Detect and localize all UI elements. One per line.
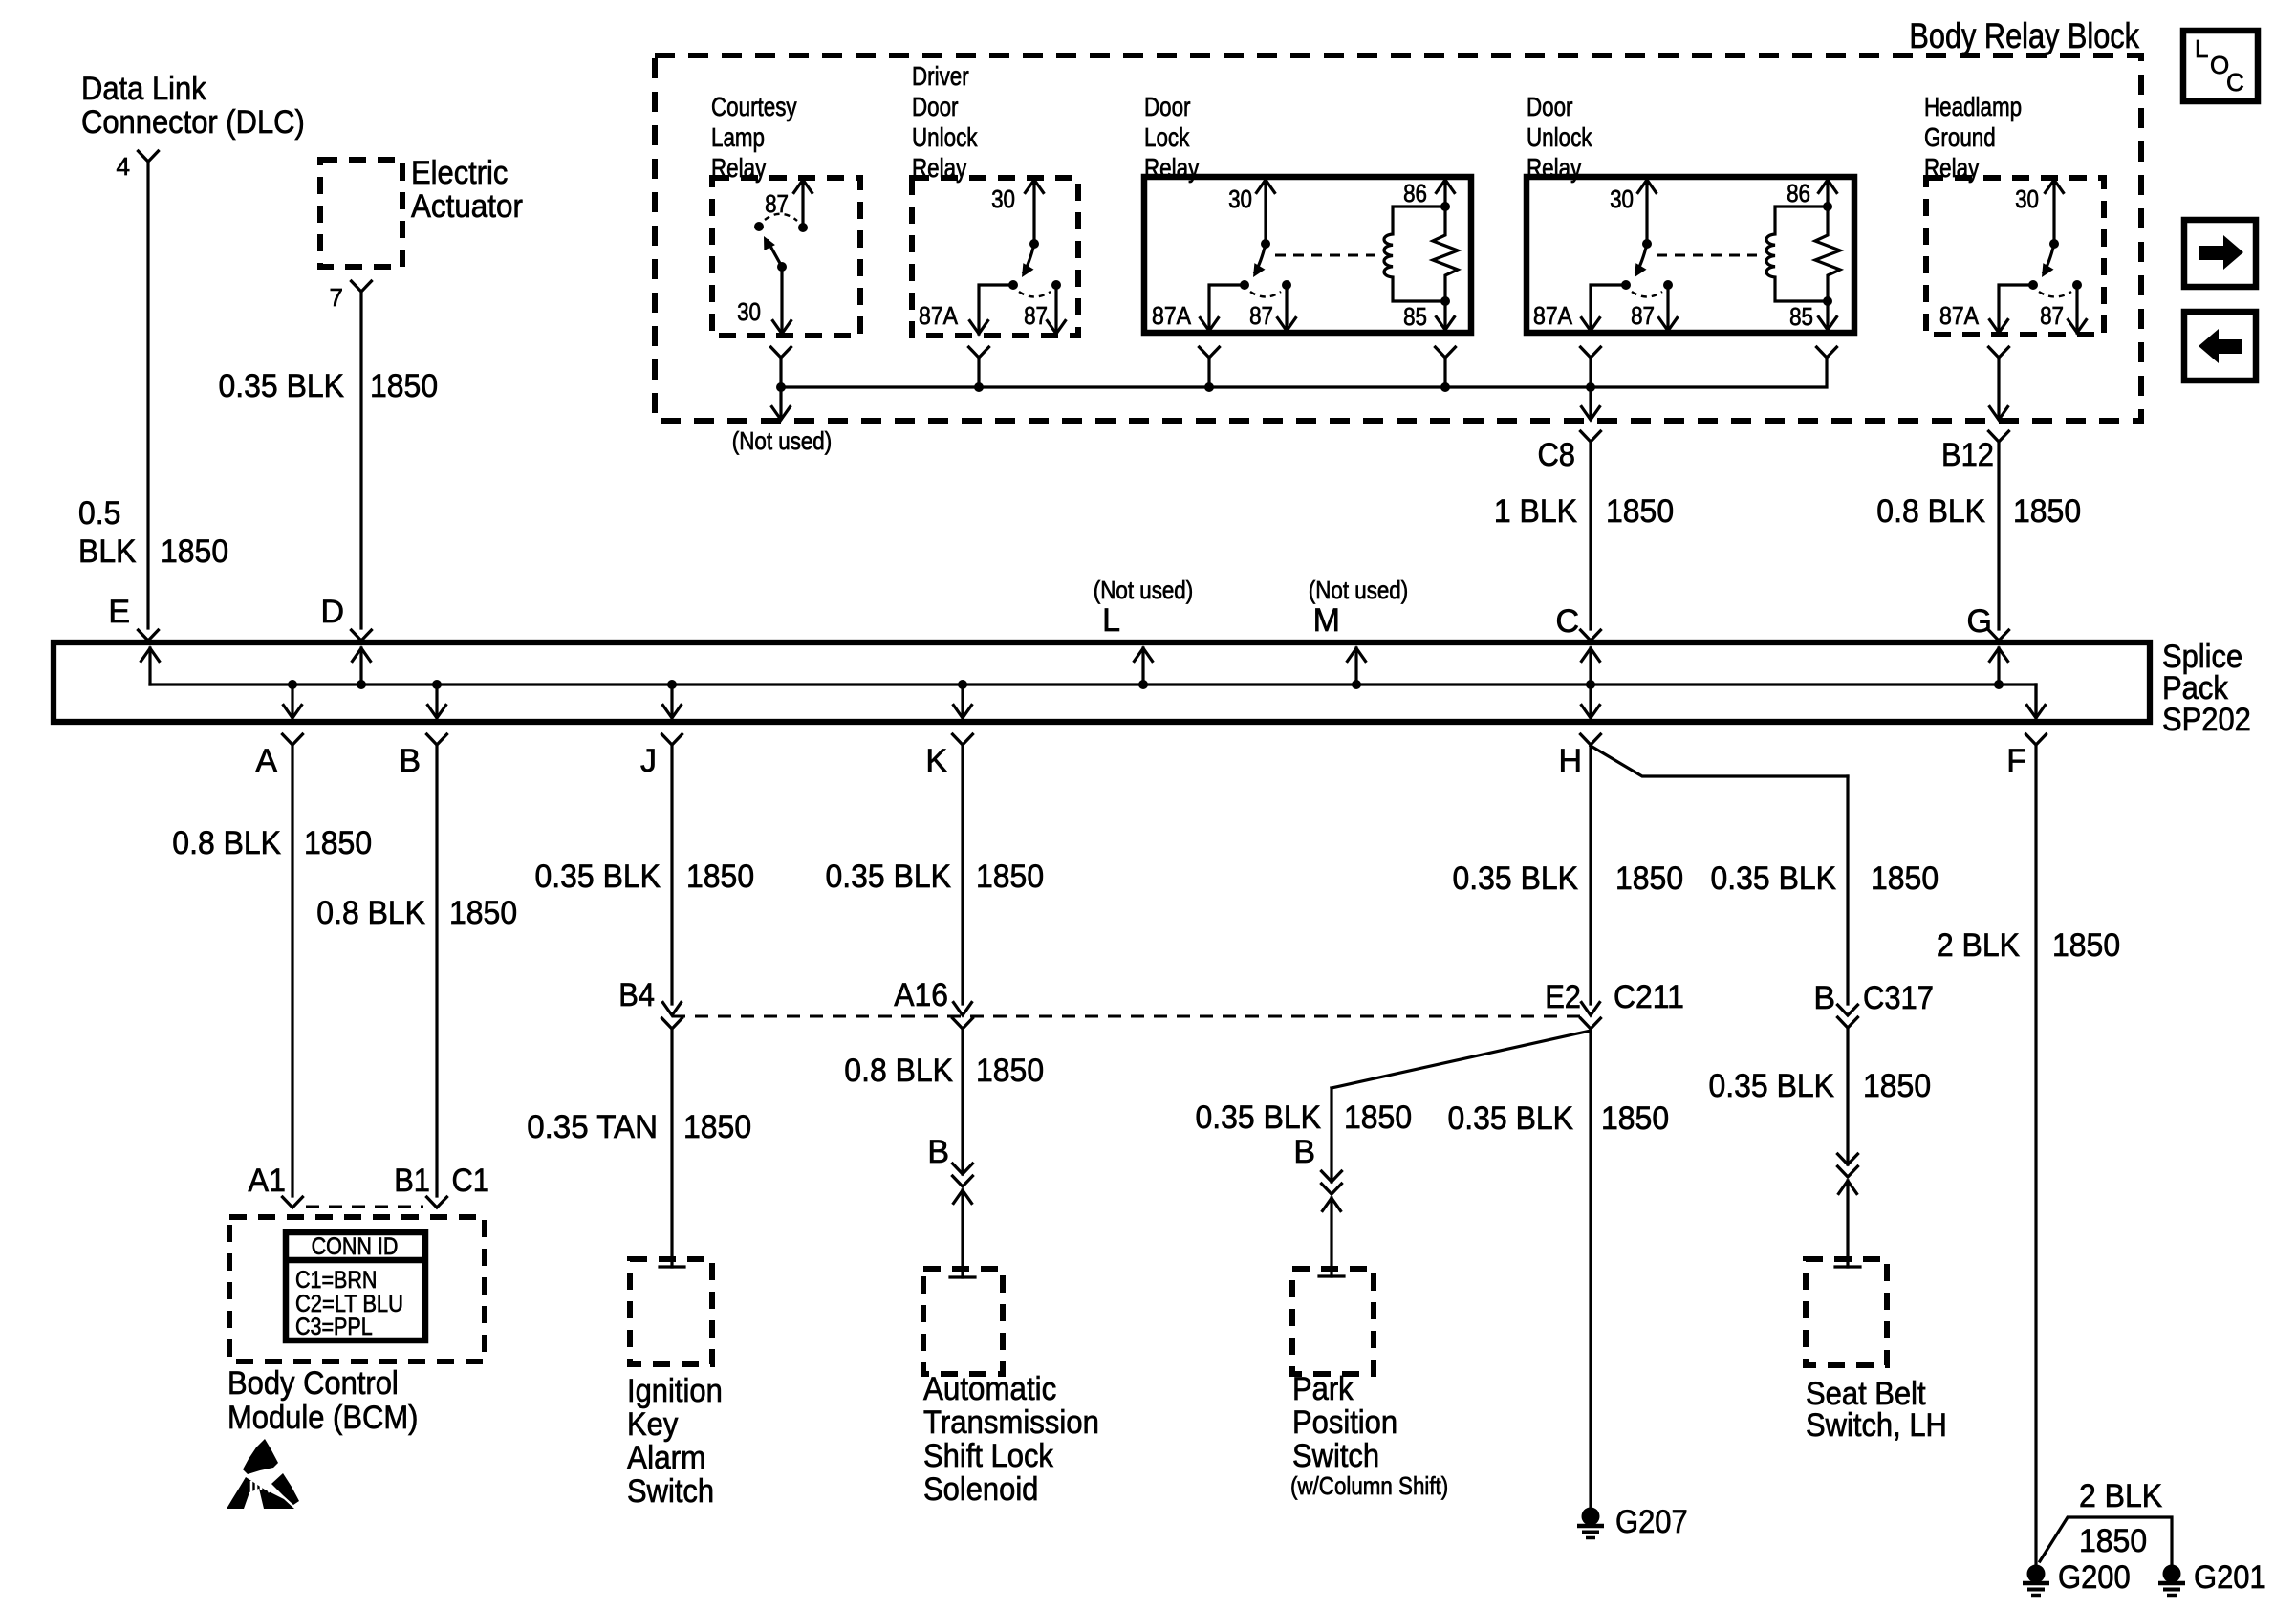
svg-text:86: 86 xyxy=(1403,179,1427,207)
svg-text:Driver: Driver xyxy=(912,61,969,91)
svg-text:(Not used): (Not used) xyxy=(732,426,832,455)
svg-text:0.8 BLK: 0.8 BLK xyxy=(1876,493,1985,530)
svg-text:Shift Lock: Shift Lock xyxy=(923,1438,1054,1474)
svg-text:0.35 BLK: 0.35 BLK xyxy=(1453,860,1579,897)
svg-text:87A: 87A xyxy=(919,301,959,330)
svg-text:Module (BCM): Module (BCM) xyxy=(227,1400,418,1436)
svg-text:0.8 BLK: 0.8 BLK xyxy=(172,825,281,861)
svg-text:1850: 1850 xyxy=(1606,493,1674,530)
svg-text:1 BLK: 1 BLK xyxy=(1494,493,1577,530)
svg-text:2 BLK: 2 BLK xyxy=(1937,927,2020,964)
svg-text:87: 87 xyxy=(1631,301,1655,330)
svg-text:1850: 1850 xyxy=(1344,1099,1412,1136)
svg-text:Door: Door xyxy=(912,92,959,121)
svg-text:7: 7 xyxy=(330,283,343,312)
svg-text:1850: 1850 xyxy=(161,533,228,570)
svg-text:30: 30 xyxy=(2015,185,2039,213)
svg-text:(w/Column Shift): (w/Column Shift) xyxy=(1290,1471,1448,1500)
svg-text:Alarm: Alarm xyxy=(627,1440,706,1476)
svg-text:0.5: 0.5 xyxy=(78,495,120,532)
svg-text:1850: 1850 xyxy=(449,895,517,931)
svg-text:1850: 1850 xyxy=(1601,1100,1669,1137)
svg-text:B: B xyxy=(927,1134,949,1170)
svg-text:Electric: Electric xyxy=(411,155,508,191)
svg-text:87A: 87A xyxy=(1939,301,1980,330)
svg-text:(Not used): (Not used) xyxy=(1309,576,1408,604)
svg-text:(Not used): (Not used) xyxy=(1094,576,1193,604)
svg-text:G: G xyxy=(1967,603,1992,640)
svg-text:A16: A16 xyxy=(894,977,948,1013)
svg-text:K: K xyxy=(925,743,947,779)
svg-text:Door: Door xyxy=(1527,92,1573,121)
svg-text:M: M xyxy=(1313,602,1340,639)
svg-text:1850: 1850 xyxy=(976,859,1044,895)
svg-text:CONN ID: CONN ID xyxy=(312,1233,399,1260)
svg-text:87: 87 xyxy=(1249,301,1273,330)
svg-text:Transmission: Transmission xyxy=(923,1404,1099,1441)
svg-text:30: 30 xyxy=(1228,185,1252,213)
svg-text:0.35 TAN: 0.35 TAN xyxy=(527,1109,658,1145)
svg-text:C: C xyxy=(1555,603,1579,640)
svg-text:30: 30 xyxy=(1610,185,1634,213)
svg-text:Key: Key xyxy=(627,1406,678,1443)
svg-text:C8: C8 xyxy=(1538,437,1576,473)
svg-text:E2: E2 xyxy=(1545,979,1581,1015)
svg-text:1850: 1850 xyxy=(304,825,372,861)
svg-text:1850: 1850 xyxy=(976,1053,1044,1089)
svg-text:Lamp: Lamp xyxy=(711,122,765,152)
svg-text:C3=PPL: C3=PPL xyxy=(295,1314,373,1340)
svg-text:Ground: Ground xyxy=(1924,122,1996,152)
svg-text:B: B xyxy=(1293,1134,1315,1170)
svg-text:B: B xyxy=(399,743,421,779)
svg-text:0.8 BLK: 0.8 BLK xyxy=(316,895,425,931)
svg-text:B: B xyxy=(1813,980,1835,1016)
svg-text:B4: B4 xyxy=(618,977,655,1013)
svg-text:C317: C317 xyxy=(1863,980,1934,1016)
svg-text:B12: B12 xyxy=(1941,437,1994,473)
svg-text:87A: 87A xyxy=(1152,301,1192,330)
svg-text:87A: 87A xyxy=(1533,301,1573,330)
svg-text:B1: B1 xyxy=(394,1163,430,1199)
svg-text:C1=BRN: C1=BRN xyxy=(295,1267,377,1294)
svg-text:Unlock: Unlock xyxy=(1527,122,1592,152)
svg-text:L: L xyxy=(1102,602,1120,639)
svg-text:Body Control: Body Control xyxy=(227,1365,399,1402)
svg-text:L: L xyxy=(2195,34,2208,63)
svg-text:1850: 1850 xyxy=(2079,1523,2147,1559)
svg-text:C1: C1 xyxy=(452,1163,490,1199)
svg-text:E: E xyxy=(108,594,130,630)
svg-text:Unlock: Unlock xyxy=(912,122,978,152)
svg-text:Switch: Switch xyxy=(627,1473,714,1510)
svg-text:Body Relay Block: Body Relay Block xyxy=(1909,16,2139,55)
svg-text:1850: 1850 xyxy=(683,1109,751,1145)
svg-text:Automatic: Automatic xyxy=(923,1371,1056,1407)
svg-text:G207: G207 xyxy=(1615,1504,1688,1540)
svg-text:1850: 1850 xyxy=(2052,927,2120,964)
svg-text:G201: G201 xyxy=(2194,1559,2266,1596)
svg-text:J: J xyxy=(640,743,657,779)
svg-text:86: 86 xyxy=(1787,179,1810,207)
svg-text:85: 85 xyxy=(1789,302,1813,331)
svg-text:0.35 BLK: 0.35 BLK xyxy=(1448,1100,1574,1137)
svg-text:Position: Position xyxy=(1292,1404,1397,1441)
svg-text:Data Link: Data Link xyxy=(81,71,207,107)
svg-text:A: A xyxy=(255,743,277,779)
svg-text:C: C xyxy=(2226,68,2244,97)
svg-text:D: D xyxy=(320,594,344,630)
svg-text:0.35 BLK: 0.35 BLK xyxy=(535,859,661,895)
svg-text:30: 30 xyxy=(737,297,761,326)
svg-text:0.35 BLK: 0.35 BLK xyxy=(1196,1099,1322,1136)
svg-text:0.35 BLK: 0.35 BLK xyxy=(219,368,345,404)
svg-text:Courtesy: Courtesy xyxy=(711,92,797,121)
svg-text:87: 87 xyxy=(1024,301,1048,330)
svg-text:Solenoid: Solenoid xyxy=(923,1471,1038,1508)
svg-text:1850: 1850 xyxy=(2013,493,2081,530)
svg-text:BLK: BLK xyxy=(78,533,137,570)
svg-text:0.35 BLK: 0.35 BLK xyxy=(1711,860,1837,897)
svg-text:Connector (DLC): Connector (DLC) xyxy=(81,104,305,141)
svg-text:0.8 BLK: 0.8 BLK xyxy=(844,1053,953,1089)
svg-text:1850: 1850 xyxy=(1863,1068,1931,1104)
svg-text:1850: 1850 xyxy=(686,859,754,895)
svg-text:A1: A1 xyxy=(249,1163,287,1199)
svg-text:G200: G200 xyxy=(2058,1559,2131,1596)
svg-text:2 BLK: 2 BLK xyxy=(2079,1478,2162,1514)
svg-text:0.35 BLK: 0.35 BLK xyxy=(826,859,952,895)
svg-text:Ignition: Ignition xyxy=(627,1373,723,1409)
svg-text:H: H xyxy=(1558,743,1582,779)
svg-text:87: 87 xyxy=(2040,301,2064,330)
svg-text:Switch: Switch xyxy=(1292,1438,1379,1474)
svg-text:0.35 BLK: 0.35 BLK xyxy=(1709,1068,1835,1104)
svg-text:1850: 1850 xyxy=(1615,860,1683,897)
svg-text:30: 30 xyxy=(991,185,1015,213)
svg-text:1850: 1850 xyxy=(1871,860,1939,897)
svg-text:Headlamp: Headlamp xyxy=(1924,92,2022,121)
svg-text:Actuator: Actuator xyxy=(411,188,523,225)
svg-text:1850: 1850 xyxy=(370,368,438,404)
svg-text:Switch, LH: Switch, LH xyxy=(1806,1407,1947,1444)
svg-text:SP202: SP202 xyxy=(2162,702,2251,738)
svg-text:85: 85 xyxy=(1403,302,1427,331)
svg-text:C211: C211 xyxy=(1614,979,1684,1015)
svg-text:Door: Door xyxy=(1144,92,1191,121)
svg-text:Park: Park xyxy=(1292,1371,1354,1407)
svg-text:Lock: Lock xyxy=(1144,122,1190,152)
svg-text:4: 4 xyxy=(117,152,130,181)
svg-text:F: F xyxy=(2006,743,2026,779)
